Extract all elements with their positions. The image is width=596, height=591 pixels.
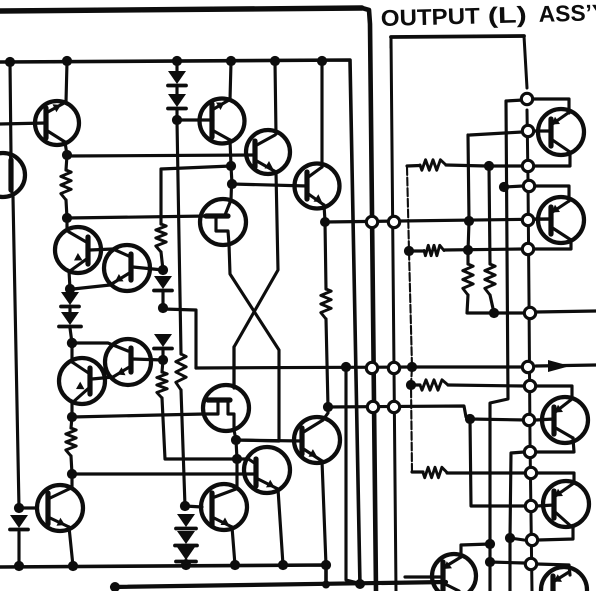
node junction D5-Q9base <box>158 355 168 365</box>
node junction y459 <box>232 454 242 464</box>
wire line y407 <box>328 406 526 420</box>
wire R11 bottom <box>490 295 494 313</box>
node junction y368-x345 <box>341 362 351 372</box>
wire Q14 base <box>19 506 37 509</box>
node junction D8-rail <box>181 560 191 570</box>
node junction Q12c-y407 <box>323 402 333 412</box>
pin P3 <box>366 362 377 373</box>
node junction Q2e <box>62 150 72 160</box>
node junction x468-y221 <box>464 216 474 226</box>
wire base line y415 to Q11 <box>72 414 204 417</box>
wire y186 pin to Q18 collector <box>535 186 569 201</box>
wire y187 stub to pin <box>504 186 523 187</box>
wire Q10 collector drop <box>225 185 232 215</box>
pin P21 <box>525 558 536 569</box>
pin P1 <box>366 216 377 227</box>
transistor Q6 <box>246 130 290 174</box>
wire R4 bottom to corner <box>162 398 246 459</box>
wire ground rail <box>0 565 326 584</box>
node junction x490-y562 <box>485 557 495 567</box>
wire column x163 top corner <box>161 166 231 224</box>
wire output assembly boundary (left vertical) <box>391 36 524 591</box>
wire y166 pin to Q17 emitter <box>534 152 570 166</box>
wire Q16 emitter <box>232 527 235 565</box>
wire R9 line <box>412 472 525 473</box>
resistor R4 <box>157 372 167 398</box>
transistor Q20 <box>543 481 589 528</box>
node junction Q5e-x163line <box>226 161 236 171</box>
wire D8 to rail <box>184 560 187 565</box>
node junction Q13e-rail <box>278 560 288 570</box>
wire y563 line to pin <box>490 562 524 563</box>
svg-text:ASS’Y: ASS’Y <box>538 0 596 27</box>
node junction rail-Q5col <box>226 56 236 66</box>
node junction x326-y586 <box>322 581 330 589</box>
pin P5 <box>522 361 533 372</box>
node junction rail-Q7col <box>317 56 327 66</box>
pin P2 <box>388 216 399 227</box>
wire Q11 collector in <box>232 347 235 388</box>
transistor Q21 <box>432 554 476 591</box>
transistor Q1 (left edge, clipped) <box>0 153 25 197</box>
wire Q11 emitter down <box>234 430 236 440</box>
transistor Q10 <box>200 199 246 245</box>
pin P12 <box>525 467 536 478</box>
wire Q5 base line <box>177 118 213 121</box>
svg-text:OUTPUT: OUTPUT <box>380 2 480 31</box>
node OUTPUT (L) ASS'Y label <box>380 0 596 31</box>
transistor Q11 <box>203 385 249 431</box>
node junction Q16 base <box>180 501 190 511</box>
wire link to Q16 collector <box>236 440 237 459</box>
wire Q12 collector up <box>323 407 328 420</box>
resistor R12 <box>321 289 331 319</box>
pin P4 <box>388 362 399 373</box>
transistor Q16 <box>201 484 247 530</box>
node junction y250-x468 <box>463 245 473 255</box>
transistor Q13 <box>244 447 290 493</box>
wire Q6 collector <box>275 62 276 134</box>
transistor Q19 <box>542 397 588 443</box>
wire bias column x489 <box>489 166 490 264</box>
diode D5 <box>154 334 172 349</box>
transistor Q17 <box>538 109 584 155</box>
wire R4 top <box>162 360 163 372</box>
wire Q6 emitter down then X right branch <box>234 172 278 387</box>
wire D1 to ground rail <box>17 532 20 566</box>
pin P11 <box>524 380 535 391</box>
wire Q7 emitter <box>324 205 325 221</box>
wire Q7 collector <box>320 62 323 167</box>
wire Q5 emitter down <box>230 140 231 166</box>
pin P6 <box>367 401 378 412</box>
wire Q18 base <box>534 217 551 220</box>
pin P15 <box>521 93 532 104</box>
wire Q17 base <box>534 129 551 132</box>
node junction bottom-left end <box>110 582 120 591</box>
resistor R10 <box>463 264 473 295</box>
resistor R3 <box>156 224 166 252</box>
pin P10 <box>522 243 533 254</box>
wire y166 to pin <box>489 164 522 167</box>
wire Q4 base to diode column <box>133 267 163 270</box>
wire y135 from pin <box>470 132 522 135</box>
resistor R1 <box>61 170 71 200</box>
resistor R8 <box>420 380 448 390</box>
wire Q20 base <box>537 505 554 506</box>
wire output drive line y222 <box>325 219 552 222</box>
wire Q17 collector <box>534 99 569 113</box>
diode D1 <box>10 515 28 530</box>
wire Q21 base line <box>405 575 441 578</box>
wire Q2 base line <box>0 123 46 124</box>
wire bias column x468 <box>468 135 469 252</box>
wire D5 bottom <box>161 350 164 360</box>
node junction x505-y187 <box>499 182 509 192</box>
wire R7 line <box>409 249 522 251</box>
node junction R2-Q13base <box>67 469 77 479</box>
wire y249 pin to Q18 emitter <box>534 240 571 249</box>
wire V+ rail <box>0 60 360 586</box>
diode D3 <box>59 312 81 327</box>
wire Q2 collector from rail <box>66 62 67 102</box>
wire Q10 emitter drop + X left branch <box>229 244 279 441</box>
node junction R6-x489 <box>484 161 494 171</box>
node junction x510-y538 <box>505 533 515 543</box>
wire Q8 collector <box>70 344 73 362</box>
wire R3 bottom <box>161 252 163 270</box>
pin P9 <box>522 160 533 171</box>
wire Q21 collector L <box>461 544 490 557</box>
wire y538 stub to pin <box>510 538 524 540</box>
wire Q8 base from Q9 emitter <box>92 377 113 379</box>
wire base line y155 to Q6 <box>67 155 255 156</box>
resistor R2 <box>66 428 76 456</box>
wire bottom border line <box>112 582 446 587</box>
wire Q19 base <box>536 419 554 420</box>
node junction Q8e <box>67 412 77 422</box>
node junction Q4 base <box>14 503 24 513</box>
wire Q9 collector line <box>72 343 128 351</box>
node junction x490-y544 <box>485 539 495 549</box>
node junction y420 <box>465 414 475 424</box>
wire base line y217 to Q10 <box>67 216 208 218</box>
wire output assembly connector column <box>524 36 532 591</box>
node junction Q14e-rail <box>68 561 78 571</box>
wire Q12 emitter drop <box>322 461 326 565</box>
wire R1 bottom <box>66 200 67 218</box>
wire R1 top <box>66 155 67 170</box>
wire y473 pin to Q20 collector <box>537 473 574 482</box>
pin P14 <box>524 307 535 318</box>
wire Q13 emitter drop <box>278 489 283 565</box>
node junction D3-Q8 <box>67 338 77 348</box>
node junction rail-left <box>5 57 15 67</box>
svg-text:(L): (L) <box>487 1 527 28</box>
wire Q3 emitter down <box>69 271 70 289</box>
wire D4 bottom <box>161 292 164 308</box>
wire top border of main assembly <box>0 8 362 11</box>
wire line y368 with arrow to speaker <box>196 360 596 372</box>
node junction y185 <box>227 179 237 189</box>
node junction x358-y586 <box>355 579 365 589</box>
wire Q14 emitter <box>69 527 73 566</box>
transistor Q8 <box>59 358 105 404</box>
wire R2 bottom <box>71 456 72 474</box>
wire Q5 collector <box>230 62 231 100</box>
resistor R9 <box>423 467 447 477</box>
wire y452 to x510 column <box>510 452 524 591</box>
wire branch to y368 line <box>163 309 196 368</box>
resistor R6 <box>420 160 446 170</box>
node junction R3-Q4base <box>158 265 168 275</box>
wire y540 pin to Q20 emitter <box>538 528 573 540</box>
node junction rail-D1 <box>14 561 24 571</box>
wire base line y441 to Q12 <box>236 440 303 441</box>
transistor Q9 <box>105 339 151 385</box>
node junction rail-diodes <box>172 56 182 66</box>
wire R10 links <box>467 252 490 313</box>
pin P8 <box>523 414 534 425</box>
transistor Q22 <box>541 567 587 591</box>
pin P18 <box>524 446 535 457</box>
node junction y251 <box>404 246 414 256</box>
node junction Q7e-output line <box>320 217 330 227</box>
pin P13 <box>522 125 533 136</box>
node junction D10-Q5base <box>172 115 182 125</box>
wire y564 pin to Q22 collector <box>537 564 570 575</box>
node junction y368-x408 <box>407 362 417 372</box>
wire Q4 emitter to node <box>73 285 110 289</box>
node junction rail-Q6col <box>270 56 280 66</box>
pin P20 <box>525 500 536 511</box>
diode D8 <box>176 547 196 562</box>
transistor Q18 <box>538 197 584 243</box>
transistor Q3 <box>55 227 101 273</box>
wire R6 line <box>407 165 486 166</box>
diode D2 <box>61 292 79 307</box>
transistor Q12 <box>294 417 340 463</box>
node junction rail-Q2col <box>62 56 72 66</box>
resistor R5 <box>176 354 186 390</box>
diode D6 <box>176 514 196 529</box>
diode D10 <box>168 94 186 109</box>
node junction R1-Q3 <box>62 213 72 223</box>
pin P19 <box>526 534 537 545</box>
wire R8 line <box>411 385 524 386</box>
diode D7 <box>175 531 197 546</box>
transistor Q14 <box>37 485 83 531</box>
node junction Q16e-rail <box>230 560 240 570</box>
wire bias column x408 <box>407 167 412 472</box>
diode D9 <box>168 71 186 86</box>
wire column x180 <box>177 121 181 354</box>
node junction y385 <box>406 380 416 390</box>
wire y313 to pin <box>494 311 524 314</box>
wire right border of main assembly (thick vertical) <box>362 8 376 591</box>
wire x231 link <box>231 166 232 184</box>
wire branch x345 down <box>346 368 358 583</box>
wire R2 top <box>71 417 72 428</box>
resistor R11 <box>485 264 495 295</box>
wire left column upper <box>10 62 11 155</box>
node junction Q11e <box>231 435 241 445</box>
wire Q16 collector drop <box>235 459 238 488</box>
resistor R7 <box>424 245 444 255</box>
transistor Q2 <box>35 101 79 145</box>
wire Q19 emitter to y452 <box>537 438 574 452</box>
wire base line y474 to Q13 <box>72 472 256 475</box>
wire y313 output to edge <box>536 311 596 312</box>
wire Q2 emitter to node <box>65 142 67 155</box>
wire Q8 emitter down <box>70 403 73 417</box>
pin P7 <box>388 401 399 412</box>
wire Q20 base feed <box>470 419 525 506</box>
wire Q14 collector <box>70 474 73 489</box>
wire Q9 base to diode column <box>133 359 163 360</box>
transistor Q5 <box>200 99 245 144</box>
diode D4 <box>154 276 172 291</box>
wire collector rail from pin99 <box>490 100 523 591</box>
wire R5 bottom <box>181 390 185 506</box>
wire x325 column upper <box>325 222 326 289</box>
wire x325 column lower <box>326 319 328 407</box>
transistor Q7 <box>295 164 340 209</box>
pin P16 <box>523 180 534 191</box>
wire D9-D10 links <box>175 62 178 120</box>
wire y386 pin to Q19 collector <box>536 386 572 398</box>
wire Q3 collector <box>65 218 68 231</box>
node junction Q12e-rail <box>321 560 331 570</box>
node junction D4-branch <box>158 303 168 313</box>
wire left column lower <box>13 197 19 508</box>
wire Q16 base link <box>185 506 202 507</box>
pin P17 <box>522 214 533 225</box>
wire D2-D3 links <box>70 289 72 343</box>
transistor Q4 <box>90 245 150 291</box>
wire base line y185 <box>232 184 307 186</box>
node junction Q3e-Q4e <box>65 284 75 294</box>
node junction y313 <box>489 308 499 318</box>
